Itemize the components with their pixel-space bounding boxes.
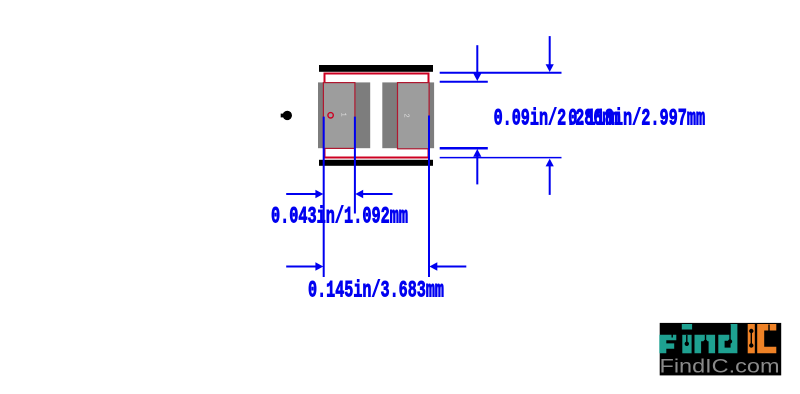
- right ext line: pad bottom: [440, 147, 488, 150]
- logo circuit trace on d: [728, 325, 732, 344]
- logo circuit trace on I: [749, 329, 753, 348]
- logo letter i dot: [682, 324, 692, 330]
- right ext line: courtyard top: [440, 72, 562, 74]
- logo letter C: [757, 324, 776, 353]
- pad 2 inner (copper): [398, 83, 430, 149]
- logo background: [660, 323, 782, 376]
- logo circuit trace on C: [767, 325, 771, 337]
- pad 1 outer (solder mask): [318, 82, 370, 148]
- logo circuit trace on n: [703, 335, 707, 344]
- dim1 right arrow tail: [362, 193, 393, 195]
- courtyard-height dim bottom arrowhead: [546, 159, 554, 167]
- pad-height dim top arrow line: [476, 45, 478, 74]
- pad-height dim bottom arrowhead: [473, 149, 481, 157]
- origin dot: [281, 111, 292, 120]
- dim extension line: courtyard right: [428, 116, 430, 278]
- dim2 left arrowhead: [315, 262, 323, 270]
- logo letter d: [718, 324, 737, 353]
- svg-text:2: 2: [402, 114, 410, 118]
- courtyard outline: [325, 74, 429, 158]
- svg-text:FindIC.com: FindIC.com: [660, 357, 780, 378]
- pad 2 outer (solder mask): [382, 82, 434, 148]
- logo letter i stem: [682, 335, 691, 354]
- logo letter n: [695, 335, 716, 354]
- dim2 right arrow tail: [436, 266, 466, 268]
- dim1 left arrow tail: [286, 193, 316, 195]
- logo letter F: [659, 335, 676, 354]
- logo circuit trace on F: [665, 330, 672, 337]
- logo circuit trace on i: [685, 335, 689, 346]
- svg-text:0.118in/2.997mm: 0.118in/2.997mm: [568, 106, 705, 132]
- svg-text:1: 1: [339, 113, 347, 117]
- bottom body bar: [319, 160, 433, 166]
- logo letter I: [748, 324, 755, 353]
- courtyard-height dim bottom arrow line: [549, 165, 551, 195]
- dim2 right arrowhead: [429, 262, 437, 270]
- top body bar: [319, 65, 433, 72]
- dim2 left arrow tail: [286, 266, 316, 268]
- pin-1 circle: [328, 113, 333, 118]
- svg-text:0.145in/3.683mm: 0.145in/3.683mm: [308, 278, 444, 304]
- dim1 left arrowhead: [315, 190, 323, 198]
- dim extension line: pad1 right edge: [354, 117, 356, 214]
- right ext line: pad top: [440, 81, 488, 83]
- right ext line: courtyard bottom: [440, 157, 562, 159]
- dim1 right arrowhead: [355, 190, 363, 198]
- pad-height dim bottom arrow line: [476, 156, 478, 185]
- dim extension line: courtyard left: [323, 117, 325, 277]
- courtyard-height dim top arrowhead: [546, 64, 554, 72]
- courtyard-height dim top arrow line: [549, 36, 551, 65]
- pad 1 inner (copper): [323, 83, 355, 149]
- svg-text:0.043in/1.092mm: 0.043in/1.092mm: [271, 204, 408, 230]
- pad-height dim top arrowhead: [473, 73, 481, 81]
